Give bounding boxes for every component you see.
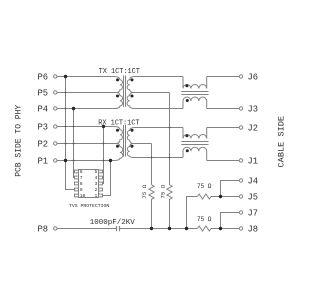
svg-text:TX 1CT:1CT: TX 1CT:1CT [99,68,140,76]
svg-text:7: 7 [80,175,83,181]
terminal circle P3 [54,125,57,128]
T2 primary winding 2 (P2 lead, coil, bottom lead to P1) [57,144,122,161]
terminal circle J1 [239,159,242,162]
terminal circle P6 [54,75,57,78]
svg-text:1000pF/2KV: 1000pF/2KV [90,219,136,227]
svg-text:J4: J4 [248,176,259,186]
wire P8 to capacitor C1 [57,228,116,230]
junction node J7/J8 [219,227,222,230]
svg-text:P1: P1 [38,156,49,166]
T1 primary winding 2 (P5 lead, coil, bottom lead to P4) [57,93,122,109]
L1 phase dot bottom [186,99,189,102]
L2 phase dot bottom [186,149,189,152]
wire L1 to J6 [207,76,239,78]
choke L1 core [181,92,208,95]
bus wire P6 line to TVS pin 9 [66,77,75,190]
resistor R2 75ohm vertical right [167,185,172,229]
svg-text:75 Ω: 75 Ω [197,183,212,190]
T2 phase dot secondary bottom [131,145,134,148]
wire C1 to R4 (bottom ground line) [120,228,198,230]
terminal circle J4 [239,179,242,182]
bus wire P1 line to TVS pin 1 [103,161,111,196]
resistor R4 75ohm horizontal bottom [197,226,211,231]
T1 core [124,76,126,107]
svg-text:P4: P4 [38,104,49,114]
wire branch to J4 [221,181,239,197]
terminal circle J2 [239,126,242,129]
svg-text:TVS PROTECTION: TVS PROTECTION [69,203,109,209]
T1 phase dot secondary top [131,78,134,81]
svg-text:CABLE SIDE: CABLE SIDE [277,116,287,168]
wire L2 to J1 [207,160,239,162]
capacitor C1 1000pF/2KV plates [117,226,120,231]
common-mode choke L2 bottom winding (to J1) [183,147,207,160]
U1 left pins [75,170,79,173]
junction node J4/J5 [219,195,222,198]
svg-text:3: 3 [94,181,97,187]
terminal circle P1 [54,159,57,162]
terminal circle P4 [54,107,57,110]
common-mode choke L2 top winding (to J2) [183,128,207,139]
svg-text:4: 4 [94,175,97,181]
svg-text:9: 9 [80,187,83,193]
wire P6 / T1 primary winding 1 (top lead, coil, bottom lead, CT jog) [57,77,122,93]
choke L2 core [181,142,208,145]
svg-text:6: 6 [80,169,83,175]
junction node P4/bus [72,107,75,110]
resistor R3 75ohm horizontal upper [197,194,211,199]
junction node R1 bottom [150,227,153,230]
T2 phase dot primary top [116,129,119,132]
T2 phase dot secondary top [131,129,134,132]
junction node R2 bottom [168,227,171,230]
TVS IC U1 box [79,170,99,198]
svg-text:P8: P8 [38,224,49,234]
wire crossing hop marks [65,92,67,94]
svg-text:J5: J5 [248,192,259,202]
svg-text:J7: J7 [248,208,259,218]
T1 secondary winding 1 (top lead from choke, coil, bottom lead to CT) [127,77,183,93]
common-mode choke L1 bottom winding (to J3) [183,97,207,108]
T2 secondary winding 1 [127,128,183,144]
svg-text:J6: J6 [248,72,259,82]
terminal circle J6 [239,75,242,78]
wire R4 to J8 [211,228,239,230]
svg-text:J2: J2 [248,123,259,133]
T2 secondary winding 2 [127,144,183,158]
svg-text:P6: P6 [38,72,49,82]
wire branch to J7 [221,213,239,229]
U1 right pins [99,170,103,173]
svg-text:5: 5 [94,169,97,175]
svg-text:P3: P3 [38,122,49,132]
junction node w2btm/bus [109,159,112,162]
T2 secondary center-tap wire down to R1 [151,144,153,185]
terminal circle P5 [54,91,57,94]
svg-text:75 Ω: 75 Ω [159,184,166,198]
terminal circle P8 [54,227,57,230]
resistor R1 75ohm vertical left [149,185,154,229]
junction node P1/bus [64,159,67,162]
svg-text:2: 2 [94,187,97,193]
terminal circle J3 [239,107,242,110]
junction node P3/bus [102,125,105,128]
wire L1 to J3 [207,108,239,110]
L2 phase dot top [185,134,188,137]
wire L2 to J2 [207,127,239,129]
svg-text:75 Ω: 75 Ω [197,216,212,223]
svg-text:P5: P5 [38,88,49,98]
junction node R3 branch [185,227,188,230]
bus wire P4 line to TVS pin 7 [74,109,75,178]
terminal circle P2 [54,142,57,145]
svg-text:J1: J1 [248,156,259,166]
T1 phase dot primary top [116,78,119,81]
terminal circle J7 [239,211,242,214]
svg-text:8: 8 [80,181,83,187]
L1 phase dot top [185,84,188,87]
svg-text:1: 1 [94,193,97,199]
common-mode choke L1 top winding (to J6) [183,77,207,89]
T2 core [124,125,126,157]
junction node P6/bus [64,75,67,78]
wire branch up to R3 [187,197,198,229]
T1 phase dot primary bottom [116,95,119,98]
T1 secondary center-tap wire down to R2 [169,93,171,185]
svg-text:RX 1CT:1CT: RX 1CT:1CT [98,120,139,128]
svg-text:J8: J8 [248,224,259,234]
terminal circle J5 [239,195,242,198]
bus wire P3 line to TVS pin 3 [103,127,104,184]
T1 phase dot secondary bottom [131,95,134,98]
svg-text:PCB SIDE TO PHY: PCB SIDE TO PHY [15,105,24,177]
svg-text:J3: J3 [248,104,259,114]
svg-text:75 Ω: 75 Ω [141,184,148,198]
wire R3 to J5 [211,196,239,198]
T2 primary winding 1 (P3 lead, coil, bottom lead, CT jog) [57,127,122,144]
T2 phase dot primary bottom [116,145,119,148]
terminal circle J8 [239,227,242,230]
svg-text:10: 10 [80,193,86,199]
T1 secondary winding 2 (CT lead, coil, bottom lead to choke) [127,93,183,109]
svg-text:P2: P2 [38,139,49,149]
